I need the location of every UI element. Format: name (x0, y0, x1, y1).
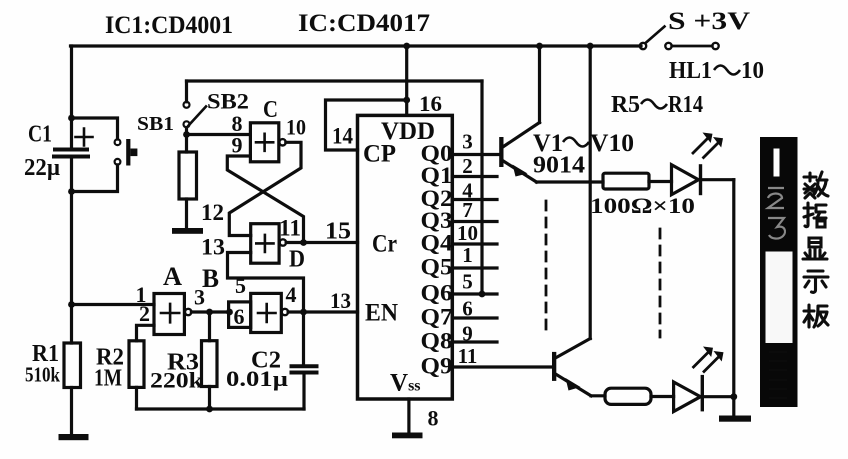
LED HL1 (672, 165, 699, 195)
switch SB1 (184, 121, 190, 127)
wire right vertical to ground (732, 180, 735, 416)
svg-text:Q1: Q1 (421, 163, 453, 188)
ground under R4 (172, 228, 203, 234)
wire Q2 stub (452, 198, 497, 201)
transistor V10 (552, 352, 556, 381)
svg-text:6: 6 (462, 297, 473, 321)
svg-text:9: 9 (232, 133, 243, 158)
svg-text:D: D (289, 247, 305, 273)
node B output junction (300, 309, 307, 316)
svg-text:4: 4 (286, 282, 297, 307)
svg-text:Q8: Q8 (421, 329, 453, 354)
svg-text:16: 16 (419, 91, 442, 116)
resistor R5 (603, 173, 649, 189)
node R3 bottom junction (206, 406, 213, 413)
svg-text:Q9: Q9 (421, 354, 453, 379)
wire V10 emitter row (591, 394, 605, 397)
svg-text:2: 2 (462, 154, 473, 178)
wire Q0 stub (452, 153, 499, 156)
capacitor C1 (55, 148, 87, 152)
wire pin column vertical (480, 81, 483, 294)
svg-text:9: 9 (462, 322, 473, 346)
NOR gate C (250, 123, 278, 162)
wire SB1 to gate C pin 8 (187, 133, 251, 136)
label shi (示) (804, 271, 828, 292)
resistor R4 (179, 152, 197, 199)
NOR gate D (251, 224, 279, 264)
svg-text:IC1:CD4001: IC1:CD4001 (105, 12, 233, 39)
svg-text:SB2: SB2 (207, 89, 249, 114)
wire Q9 stub (452, 365, 552, 368)
svg-text:1M: 1M (94, 366, 122, 392)
svg-text:10: 10 (457, 221, 478, 245)
svg-text:Q6: Q6 (421, 281, 453, 306)
svg-text:3: 3 (194, 285, 205, 310)
svg-text:Vss: Vss (390, 370, 421, 397)
node oscillator input junction (68, 301, 75, 308)
svg-text:510k: 510k (25, 363, 60, 387)
wire left rail (70, 46, 73, 343)
svg-text:7: 7 (462, 198, 473, 222)
dashed separator 1 (545, 201, 548, 332)
node D output junction (300, 239, 307, 246)
svg-text:10: 10 (286, 115, 306, 140)
wire Q3 stub (452, 220, 497, 223)
node Q6 stub junction (479, 291, 486, 298)
node B input junction (226, 309, 233, 316)
svg-text:SB1: SB1 (137, 113, 174, 135)
svg-text:5: 5 (462, 270, 473, 294)
display panel board (760, 137, 798, 407)
wire V10 collector to rail (589, 46, 592, 339)
wire Q6 stub (452, 292, 497, 295)
switch SB2 (185, 81, 188, 102)
svg-text:C1: C1 (28, 122, 52, 148)
IC U1 CD4017 box (358, 115, 453, 399)
node C1 bottom junction (68, 188, 75, 195)
wire gate D lower input to B output (228, 253, 304, 312)
label ban (板) (804, 305, 828, 327)
wire Vss pin 8 (407, 399, 410, 433)
NOR gate A (72, 303, 155, 306)
LED HL1 arrows (693, 138, 719, 158)
svg-text:Q5: Q5 (421, 255, 453, 280)
wire VDD pin 16 (405, 46, 408, 115)
node A output junction (206, 309, 213, 316)
svg-text:13: 13 (330, 288, 351, 313)
capacitor C2 (302, 312, 305, 365)
svg-text:8: 8 (428, 406, 439, 431)
switch S (640, 43, 646, 49)
wire Q4 stub (452, 242, 497, 245)
svg-text:V10: V10 (590, 130, 634, 157)
ground under R1 (59, 434, 89, 440)
wire gate B output to EN pin 13 (288, 310, 357, 313)
svg-text:12: 12 (201, 200, 224, 225)
svg-text:1: 1 (462, 243, 473, 267)
svg-text:C: C (263, 97, 278, 123)
svg-text:220k: 220k (150, 368, 204, 393)
svg-text:Q7: Q7 (421, 305, 453, 330)
transistor V1 (499, 137, 503, 167)
svg-text:Q3: Q3 (421, 208, 453, 233)
svg-text:5: 5 (235, 273, 246, 298)
svg-text:9014: 9014 (533, 153, 585, 179)
wire oscillator bottom (137, 407, 305, 410)
wire CP pin 14 (326, 100, 407, 150)
wire gate D output to Cr pin 15 (286, 241, 357, 244)
resistor R1 (64, 343, 81, 388)
pushbutton beside C1 (72, 118, 118, 139)
svg-text:S +3V: S +3V (668, 8, 750, 35)
resistor R3 (208, 312, 211, 341)
svg-text:2: 2 (139, 301, 150, 326)
svg-text:CP: CP (363, 141, 396, 168)
LED HL10 (674, 382, 701, 412)
svg-text:3: 3 (462, 130, 473, 154)
wire Q5 stub (452, 266, 497, 269)
svg-text:22µ: 22µ (24, 155, 60, 181)
ground right (719, 416, 751, 422)
resistor R2 (129, 341, 144, 388)
wire top power rail (71, 44, 642, 47)
wire gate C output to gate D input (229, 142, 301, 235)
svg-text:Q4: Q4 (421, 231, 454, 256)
ground under Vss (392, 433, 423, 439)
svg-text:R5: R5 (611, 92, 640, 118)
svg-text:15: 15 (325, 219, 351, 245)
label ju (据) (804, 203, 826, 227)
svg-text:Cr: Cr (372, 231, 397, 258)
svg-text:13: 13 (201, 235, 225, 260)
node SB1 junction (183, 131, 190, 138)
dashed separator 2 (659, 229, 662, 337)
node C1 top junction (68, 115, 75, 122)
svg-text:A: A (163, 262, 182, 291)
wire gate A out to gate B (191, 310, 229, 313)
NOR gate B (229, 302, 251, 328)
svg-text:R14: R14 (668, 92, 703, 118)
wire gate A pin2 hook to R2 (137, 325, 155, 341)
wire V1 emitter row (537, 180, 604, 183)
LED HL10 arrows (694, 352, 720, 372)
svg-text:11: 11 (279, 216, 301, 241)
svg-text:11: 11 (458, 344, 478, 368)
wire SB feed horizontal (187, 79, 483, 82)
wire Q1 stub (452, 175, 497, 178)
wire Q8 stub (452, 340, 497, 343)
node LED row 2 junction (730, 393, 737, 400)
wire Q7 stub (452, 316, 497, 319)
svg-text:14: 14 (332, 124, 353, 149)
svg-text:HL1: HL1 (669, 58, 712, 84)
svg-text:100Ω×10: 100Ω×10 (590, 193, 695, 218)
svg-text:10: 10 (741, 58, 764, 84)
resistor R14 (605, 388, 651, 404)
label shu (数) (804, 172, 828, 198)
label xian (显) (803, 238, 827, 259)
svg-text:6: 6 (234, 304, 245, 329)
wire V1 collector to rail (538, 46, 541, 123)
wire gate C pin9 cross to D output (227, 156, 303, 243)
svg-text:0.01µ: 0.01µ (226, 366, 288, 391)
svg-text:EN: EN (365, 300, 398, 327)
svg-text:IC:CD4017: IC:CD4017 (298, 10, 430, 37)
